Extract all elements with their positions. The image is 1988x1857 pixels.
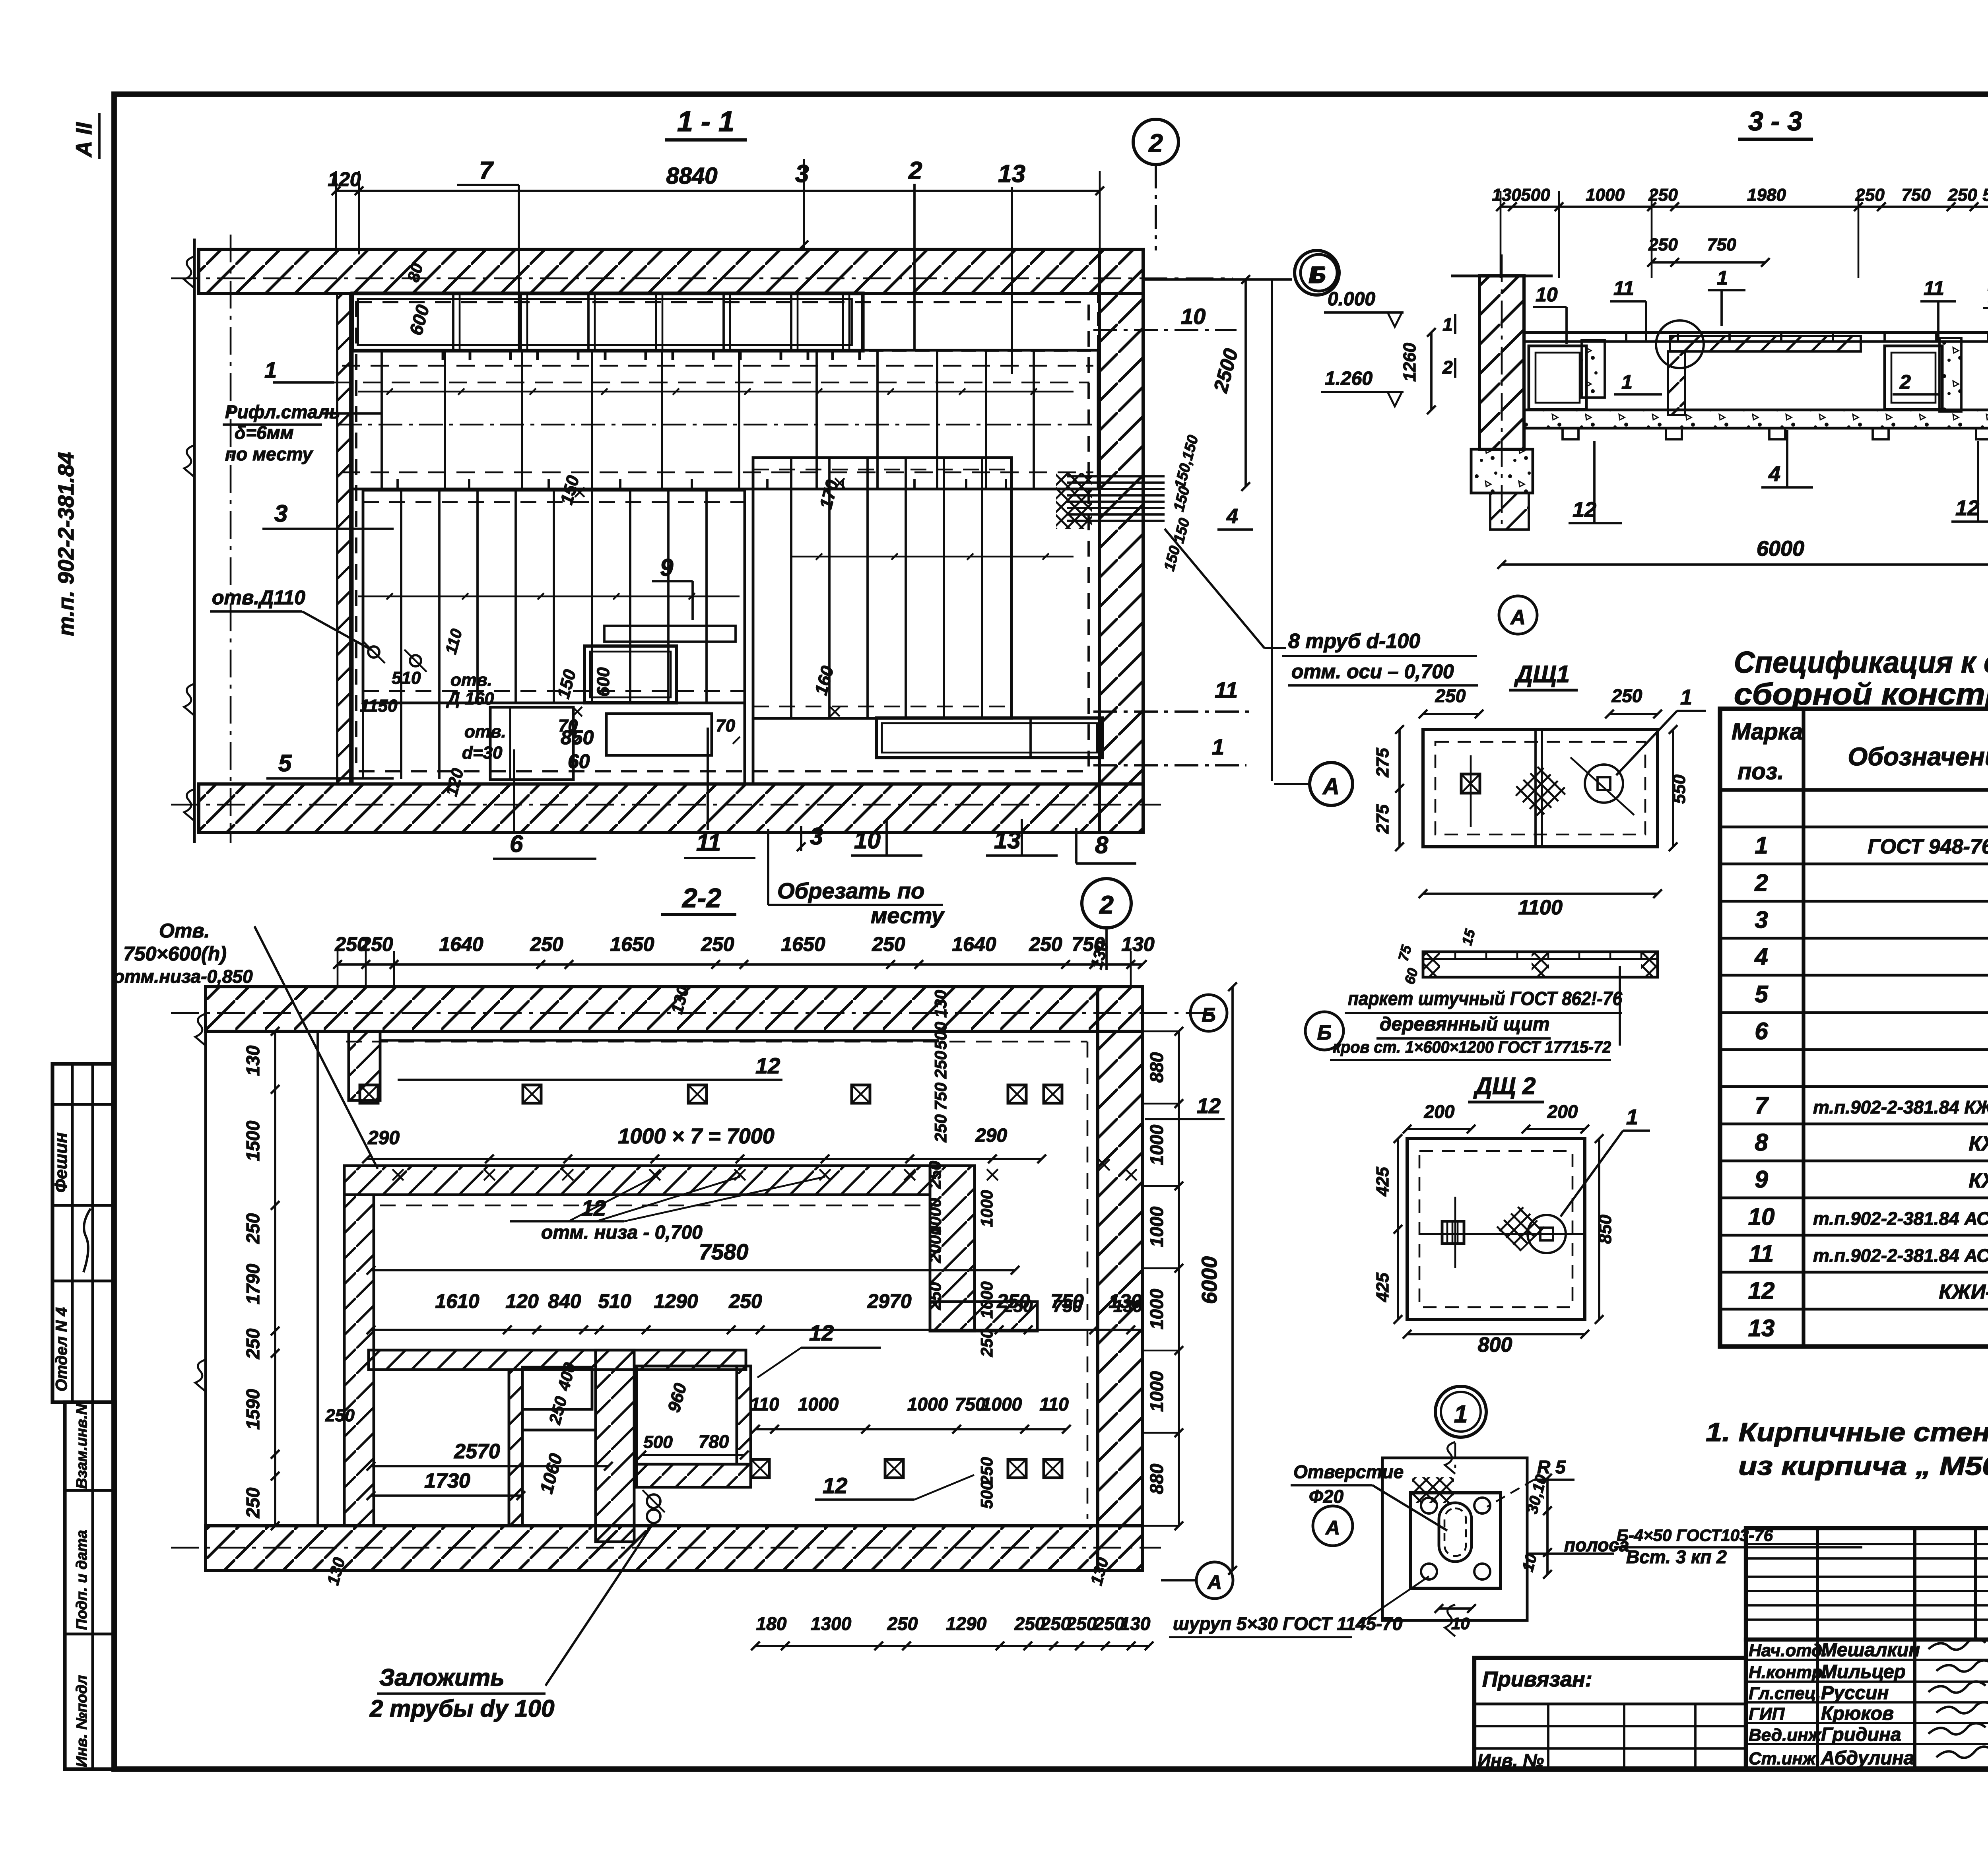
svg-text:10: 10 <box>1748 1203 1775 1230</box>
svg-text:250: 250 <box>926 1282 944 1310</box>
svg-text:1790: 1790 <box>243 1263 263 1304</box>
svg-text:2: 2 <box>1442 357 1453 378</box>
rect C1 with 600 <box>584 646 676 703</box>
rect C3 <box>606 714 712 755</box>
svg-text:месту: месту <box>871 903 945 928</box>
svg-text:840: 840 <box>548 1290 581 1312</box>
interior dashed contour <box>356 302 1089 771</box>
svg-text:250: 250 <box>977 1329 996 1357</box>
6000 overall vertical dim <box>1231 987 1234 1570</box>
door rect C2 <box>490 707 573 780</box>
svg-text:500: 500 <box>931 1022 950 1050</box>
svg-text:Ст.инж.: Ст.инж. <box>1749 1749 1821 1768</box>
svg-text:т.п. 902-2-381.84: т.п. 902-2-381.84 <box>53 452 78 636</box>
svg-text:Д 160: Д 160 <box>446 689 494 708</box>
lower-left partitions <box>369 1350 746 1370</box>
svg-text:отв.: отв. <box>464 722 506 741</box>
svg-text:250: 250 <box>530 933 563 955</box>
svg-text:2 трубы dy 100: 2 трубы dy 100 <box>369 1695 554 1722</box>
svg-text:600: 600 <box>594 667 613 697</box>
svg-text:Подп. и дата: Подп. и дата <box>74 1530 90 1630</box>
svg-text:250: 250 <box>1648 235 1678 254</box>
svg-text:3 - 3: 3 - 3 <box>1748 106 1802 136</box>
svg-text:1000: 1000 <box>907 1394 948 1415</box>
svg-text:275: 275 <box>1373 804 1392 834</box>
svg-text:1: 1 <box>1442 314 1453 335</box>
svg-text:110: 110 <box>750 1394 779 1415</box>
svg-text:9: 9 <box>1755 1166 1768 1193</box>
svg-text:А II: А II <box>71 122 96 158</box>
specification table grid <box>1720 709 1988 1347</box>
svg-text:А: А <box>1207 1571 1222 1593</box>
svg-text:510: 510 <box>392 668 421 688</box>
svg-text:8840: 8840 <box>666 163 717 189</box>
A and B circles below section <box>1499 596 1537 634</box>
svg-text:т.п.902-2-381.84 АС 57: т.п.902-2-381.84 АС 57 <box>1813 1245 1988 1266</box>
svg-text:250: 250 <box>243 1487 263 1518</box>
svg-text:отв.Д110: отв.Д110 <box>212 586 305 609</box>
svg-text:250: 250 <box>701 933 734 955</box>
svg-text:паркет штучный ГОСТ 862!-76: паркет штучный ГОСТ 862!-76 <box>1348 988 1622 1009</box>
two pipes circles <box>647 1494 660 1508</box>
svg-text:1.260: 1.260 <box>1325 368 1373 389</box>
svg-text:КЖИ-Р3: КЖИ-Р3 <box>1969 1169 1988 1192</box>
plate square <box>1382 1458 1527 1620</box>
DSh2 plate <box>1407 1139 1585 1319</box>
svg-text:4: 4 <box>1768 462 1780 486</box>
svg-text:500: 500 <box>643 1432 673 1452</box>
svg-text:1000: 1000 <box>981 1394 1022 1415</box>
svg-text:425: 425 <box>1373 1167 1392 1197</box>
svg-text:1000: 1000 <box>1146 1206 1167 1247</box>
svg-text:250: 250 <box>1003 1296 1033 1316</box>
svg-text:750×600(h): 750×600(h) <box>123 943 227 965</box>
band B frame zone <box>352 350 1098 489</box>
svg-text:Заложить: Заложить <box>379 1664 505 1691</box>
svg-text:1. Кирпичные стенки втор: 1. Кирпичные стенки второго пола выполня… <box>1706 1417 1988 1447</box>
B circle left of section <box>1301 254 1337 291</box>
svg-text:11: 11 <box>1749 1240 1774 1267</box>
svg-text:510: 510 <box>598 1290 631 1312</box>
svg-text:по месту: по месту <box>225 444 313 464</box>
svg-text:800: 800 <box>1478 1333 1512 1356</box>
svg-text:130: 130 <box>1492 185 1521 205</box>
svg-text:13: 13 <box>1748 1315 1775 1341</box>
svg-text:1000 × 7 = 7000: 1000 × 7 = 7000 <box>618 1124 774 1148</box>
svg-text:275: 275 <box>1373 748 1392 778</box>
svg-text:т.п.902-2-381.84 АС 57: т.п.902-2-381.84 АС 57 <box>1813 1208 1988 1229</box>
svg-text:1300: 1300 <box>811 1613 852 1634</box>
center rect with 600 vertical (dsh1 panel) <box>604 626 736 642</box>
svg-text:Обрезать по: Обрезать по <box>777 878 924 903</box>
svg-text:1980: 1980 <box>1747 185 1786 205</box>
svg-text:8: 8 <box>1755 1129 1768 1156</box>
svg-text:Ф20: Ф20 <box>1309 1486 1343 1507</box>
svg-text:2: 2 <box>1754 869 1768 896</box>
A circle left of uzel plate <box>1313 1506 1353 1546</box>
svg-text:500: 500 <box>1521 185 1550 205</box>
svg-text:1640: 1640 <box>952 933 996 955</box>
svg-text:130: 130 <box>1121 933 1155 955</box>
svg-text:Абдулина: Абдулина <box>1821 1748 1914 1769</box>
top-left inner stub wall <box>349 1031 380 1100</box>
shelf line with plate squares row 1 <box>380 1039 939 1042</box>
A circle bottom right of plan 2-2 <box>1196 1562 1233 1599</box>
svg-text:130: 130 <box>931 990 950 1018</box>
svg-text:1290: 1290 <box>946 1613 987 1634</box>
svg-text:Привязан:: Привязан: <box>1482 1667 1592 1691</box>
squares row 2 <box>751 1459 769 1478</box>
planked area left <box>363 490 745 703</box>
svg-text:1590: 1590 <box>243 1389 263 1430</box>
svg-text:1: 1 <box>1212 734 1224 759</box>
svg-text:12: 12 <box>1573 498 1596 522</box>
B circle left of strip <box>1305 1012 1343 1050</box>
plan 2-2 wall axes <box>171 1012 1217 1014</box>
svg-text:7: 7 <box>479 157 494 184</box>
svg-text:отм. низа - 0,700: отм. низа - 0,700 <box>541 1222 703 1243</box>
plan 1-1 walls <box>199 249 1143 293</box>
svg-text:1000: 1000 <box>1146 1371 1167 1412</box>
svg-text:1: 1 <box>1454 1401 1468 1428</box>
svg-text:5: 5 <box>278 750 292 776</box>
svg-text:10: 10 <box>1181 304 1206 329</box>
svg-text:290: 290 <box>367 1127 400 1149</box>
svg-text:250: 250 <box>1611 685 1642 706</box>
svg-text:10: 10 <box>854 827 881 854</box>
svg-text:70: 70 <box>716 716 735 735</box>
svg-text:1650: 1650 <box>781 933 825 955</box>
svg-text:d=30: d=30 <box>462 743 503 763</box>
svg-text:250: 250 <box>243 1213 263 1244</box>
svg-text:0.000: 0.000 <box>1328 289 1375 310</box>
svg-text:12: 12 <box>823 1473 847 1498</box>
svg-text:3: 3 <box>795 160 809 188</box>
svg-text:1 - 1: 1 - 1 <box>677 106 734 138</box>
svg-text:1: 1 <box>1621 371 1633 393</box>
svg-text:А: А <box>1322 774 1340 799</box>
svg-text:1: 1 <box>1755 832 1768 859</box>
svg-text:250: 250 <box>728 1290 762 1312</box>
svg-text:Б: Б <box>1312 264 1326 286</box>
svg-text:2000: 2000 <box>926 1226 944 1263</box>
svg-text:250: 250 <box>325 1406 355 1425</box>
svg-text:250: 250 <box>1648 185 1678 205</box>
svg-text:ГОСТ 948-76: ГОСТ 948-76 <box>1868 835 1988 858</box>
svg-text:12: 12 <box>809 1320 834 1345</box>
wall axes dash-dot <box>171 277 1233 279</box>
svg-text:отм.низа-0,850: отм.низа-0,850 <box>113 966 253 987</box>
svg-text:Б: Б <box>1317 1021 1332 1044</box>
svg-text:250: 250 <box>931 1114 950 1143</box>
svg-text:11: 11 <box>1215 677 1238 702</box>
svg-text:13: 13 <box>998 160 1025 188</box>
svg-text:120: 120 <box>505 1290 539 1312</box>
svg-text:880: 880 <box>1146 1463 1167 1494</box>
svg-text:10: 10 <box>1451 1614 1470 1633</box>
svg-text:4: 4 <box>1226 505 1238 528</box>
svg-text:7: 7 <box>1755 1092 1769 1119</box>
svg-text:130: 130 <box>1120 1613 1151 1634</box>
svg-text:750: 750 <box>1053 1296 1082 1316</box>
section 3-3 left wall <box>1479 276 1524 449</box>
svg-text:1610: 1610 <box>435 1290 479 1312</box>
svg-text:180: 180 <box>756 1613 787 1634</box>
svg-text:250: 250 <box>1435 685 1466 706</box>
svg-text:Б-4×50 ГОСТ103-76: Б-4×50 ГОСТ103-76 <box>1617 1526 1773 1545</box>
B circle right of plan 1-1 <box>1295 250 1339 295</box>
svg-text:Инв. №: Инв. № <box>1477 1750 1544 1771</box>
svg-text:Руссин: Руссин <box>1821 1682 1889 1704</box>
svg-text:5: 5 <box>1755 981 1769 1007</box>
svg-text:ГИП: ГИП <box>1749 1704 1785 1724</box>
svg-text:750: 750 <box>1901 185 1931 205</box>
svg-text:3: 3 <box>810 823 823 850</box>
svg-text:Взам.инв.N: Взам.инв.N <box>74 1403 90 1489</box>
svg-text:Отверстие: Отверстие <box>1293 1461 1404 1482</box>
privyazan box <box>1474 1703 1746 1706</box>
svg-text:2970: 2970 <box>867 1290 911 1312</box>
svg-text:Фешин: Фешин <box>51 1133 71 1193</box>
svg-text:1000: 1000 <box>977 1281 996 1318</box>
svg-text:Вед.инж.: Вед.инж. <box>1749 1725 1826 1745</box>
left sidebar stamp upper <box>52 1064 113 1402</box>
svg-text:11: 11 <box>1924 277 1944 299</box>
svg-text:880: 880 <box>1146 1052 1167 1083</box>
svg-text:А: А <box>1325 1517 1340 1539</box>
svg-text:1260: 1260 <box>1400 343 1419 382</box>
svg-text:Отв.: Отв. <box>159 920 210 942</box>
svg-text:Б: Б <box>1202 1004 1215 1026</box>
svg-text:1: 1 <box>1680 685 1692 709</box>
svg-text:250: 250 <box>243 1328 263 1359</box>
B circle right of plan 2-2 <box>1190 995 1227 1031</box>
svg-text:Нач.отд.: Нач.отд. <box>1749 1641 1827 1660</box>
svg-text:4: 4 <box>1754 943 1768 970</box>
svg-text:2: 2 <box>1899 371 1911 393</box>
svg-text:отв.: отв. <box>450 670 492 690</box>
slot and bolt holes <box>1439 1503 1472 1562</box>
svg-text:250: 250 <box>977 1457 996 1485</box>
svg-text:2: 2 <box>1099 891 1114 919</box>
svg-text:290: 290 <box>975 1125 1007 1146</box>
svg-text:1000: 1000 <box>798 1394 839 1415</box>
svg-text:2: 2 <box>908 157 922 184</box>
svg-text:из кирпича „ М50” на ценентн: из кирпича „ М50” на ценентном растворе … <box>1738 1451 1988 1481</box>
svg-text:250: 250 <box>1947 185 1977 205</box>
svg-text:шуруп 5×30 ГОСТ 1145-70: шуруп 5×30 ГОСТ 1145-70 <box>1173 1613 1403 1634</box>
detail balloon circle on floor <box>1656 320 1704 368</box>
svg-text:750: 750 <box>931 1083 950 1110</box>
svg-text:деревянный щит: деревянный щит <box>1380 1014 1550 1035</box>
svg-text:Мильцер: Мильцер <box>1821 1661 1906 1682</box>
svg-text:Спецификация к схеме распол: Спецификация к схеме расположения элемен… <box>1734 646 1988 679</box>
svg-text:Отдел N 4: Отдел N 4 <box>53 1307 70 1391</box>
DSh1 plate <box>1423 730 1658 847</box>
svg-text:250: 250 <box>1066 1613 1097 1634</box>
svg-text:250: 250 <box>926 1161 944 1189</box>
svg-text:отм. оси – 0,700: отм. оси – 0,700 <box>1291 660 1454 683</box>
left interior dim column <box>274 1031 276 1526</box>
svg-text:7: 7 <box>1986 284 1988 307</box>
lower-left room <box>362 703 364 779</box>
title block <box>1746 1528 1988 1640</box>
svg-text:9: 9 <box>660 554 674 581</box>
svg-text:Инв. №подл: Инв. №подл <box>74 1675 90 1767</box>
svg-text:250: 250 <box>872 933 905 955</box>
svg-text:110: 110 <box>1039 1394 1069 1415</box>
svg-text:6: 6 <box>1755 1018 1768 1044</box>
svg-text:250: 250 <box>887 1613 918 1634</box>
svg-text:1000: 1000 <box>977 1190 996 1227</box>
svg-text:250: 250 <box>931 1051 950 1079</box>
svg-text:сборной конструкции помещени: сборной конструкции помещения щитов <box>1734 677 1988 711</box>
svg-text:10: 10 <box>1536 283 1558 306</box>
svg-text:Гридина: Гридина <box>1821 1724 1901 1745</box>
svg-text:Вст. 3 кп 2: Вст. 3 кп 2 <box>1626 1547 1727 1567</box>
svg-text:780: 780 <box>699 1431 729 1452</box>
svg-text:500: 500 <box>1982 185 1988 205</box>
svg-text:1150: 1150 <box>360 696 398 716</box>
svg-text:425: 425 <box>1373 1273 1392 1302</box>
svg-text:1: 1 <box>264 357 277 382</box>
svg-text:130: 130 <box>1113 1296 1143 1316</box>
svg-text:250: 250 <box>1855 185 1885 205</box>
section circle 2 bottom <box>1082 879 1131 928</box>
svg-text:12: 12 <box>1955 496 1979 520</box>
svg-text:т.п.902-2-381.84 КЖИ-Р1: т.п.902-2-381.84 КЖИ-Р1 <box>1813 1097 1988 1118</box>
otv holes with circles <box>368 646 379 658</box>
bottom-right panel <box>877 718 1102 758</box>
svg-text:6000: 6000 <box>1198 1256 1221 1304</box>
svg-text:60: 60 <box>568 750 590 772</box>
svg-text:Мешалкин: Мешалкин <box>1821 1640 1920 1661</box>
svg-text:δ=6мм: δ=6мм <box>235 422 294 443</box>
svg-text:кров ст. 1×600×1200 ГОСТ 17715: кров ст. 1×600×1200 ГОСТ 17715-72 <box>1333 1038 1611 1056</box>
svg-text:12: 12 <box>1748 1277 1775 1304</box>
svg-text:2570: 2570 <box>454 1440 500 1463</box>
uzel 1 circle title <box>1435 1386 1486 1437</box>
svg-text:Н.контр.: Н.контр. <box>1749 1663 1827 1682</box>
svg-text:1100: 1100 <box>1518 896 1563 919</box>
svg-text:1500: 1500 <box>243 1120 263 1161</box>
svg-text:1650: 1650 <box>610 933 654 955</box>
svg-text:1000: 1000 <box>1146 1124 1167 1165</box>
svg-text:1000: 1000 <box>1586 185 1625 205</box>
svg-text:поз.: поз. <box>1738 759 1784 784</box>
panel row A (shield panels top) <box>352 293 863 351</box>
svg-text:Крюков: Крюков <box>1821 1703 1894 1724</box>
svg-text:130: 130 <box>243 1045 263 1076</box>
inner brick wall ring <box>344 1166 930 1195</box>
svg-text:ДЩ 2: ДЩ 2 <box>1473 1073 1536 1099</box>
pipes bundle 8x d100 <box>1056 473 1092 529</box>
svg-text:1290: 1290 <box>654 1290 698 1312</box>
svg-text:1000: 1000 <box>1146 1288 1167 1329</box>
svg-text:6000: 6000 <box>1757 537 1804 561</box>
svg-text:1: 1 <box>1626 1105 1638 1129</box>
floor assembly <box>1524 331 1988 334</box>
planked area right <box>753 458 1011 718</box>
svg-text:1640: 1640 <box>439 933 483 955</box>
svg-text:11: 11 <box>1613 277 1634 299</box>
svg-text:200: 200 <box>1547 1101 1578 1122</box>
svg-text:8: 8 <box>1095 832 1109 858</box>
svg-text:750: 750 <box>1707 235 1736 254</box>
svg-text:3: 3 <box>1755 906 1768 933</box>
svg-text:7580: 7580 <box>699 1239 749 1264</box>
svg-text:70: 70 <box>558 716 578 735</box>
svg-text:8 труб d-100: 8 труб d-100 <box>1288 630 1420 653</box>
svg-text:Марка: Марка <box>1732 719 1803 745</box>
section 3-3 top dim string <box>1501 206 1988 208</box>
svg-text:А: А <box>1510 606 1526 629</box>
svg-text:12: 12 <box>1197 1094 1221 1118</box>
svg-text:13: 13 <box>994 827 1021 854</box>
plan 2-2 walls <box>206 987 1142 1031</box>
svg-text:Обозначение: Обозначение <box>1848 742 1988 771</box>
plan 2-2 interior left boundary <box>316 1031 319 1526</box>
svg-text:КЖИ-МН18: КЖИ-МН18 <box>1939 1281 1988 1304</box>
svg-text:3: 3 <box>274 500 287 527</box>
svg-text:ДЩ1: ДЩ1 <box>1514 661 1570 687</box>
svg-text:Рифл.сталь: Рифл.сталь <box>225 402 340 422</box>
svg-text:КЖИ-Р2: КЖИ-Р2 <box>1969 1132 1988 1155</box>
parquet floor strip section <box>1423 952 1658 977</box>
svg-text:200: 200 <box>1424 1101 1455 1122</box>
svg-text:120: 120 <box>328 168 361 190</box>
svg-text:12: 12 <box>755 1053 780 1078</box>
left sidebar stamp lower <box>65 1402 115 1769</box>
svg-text:250: 250 <box>359 933 393 955</box>
plan 1-1 outer left edge with breaks <box>193 239 196 843</box>
section mark circle 2 top <box>1133 119 1178 165</box>
svg-text:1: 1 <box>1717 267 1728 289</box>
svg-text:6: 6 <box>510 831 523 857</box>
svg-text:2-2: 2-2 <box>681 883 721 913</box>
A circle right bottom of plan 1-1 <box>1310 763 1353 805</box>
svg-text:11: 11 <box>696 829 721 856</box>
svg-text:1730: 1730 <box>424 1469 470 1492</box>
svg-text:2: 2 <box>1148 129 1163 157</box>
svg-text:250: 250 <box>1029 933 1062 955</box>
right outside dim column 880/1000 <box>1178 1031 1180 1526</box>
svg-text:Гл.спец.: Гл.спец. <box>1749 1684 1821 1703</box>
